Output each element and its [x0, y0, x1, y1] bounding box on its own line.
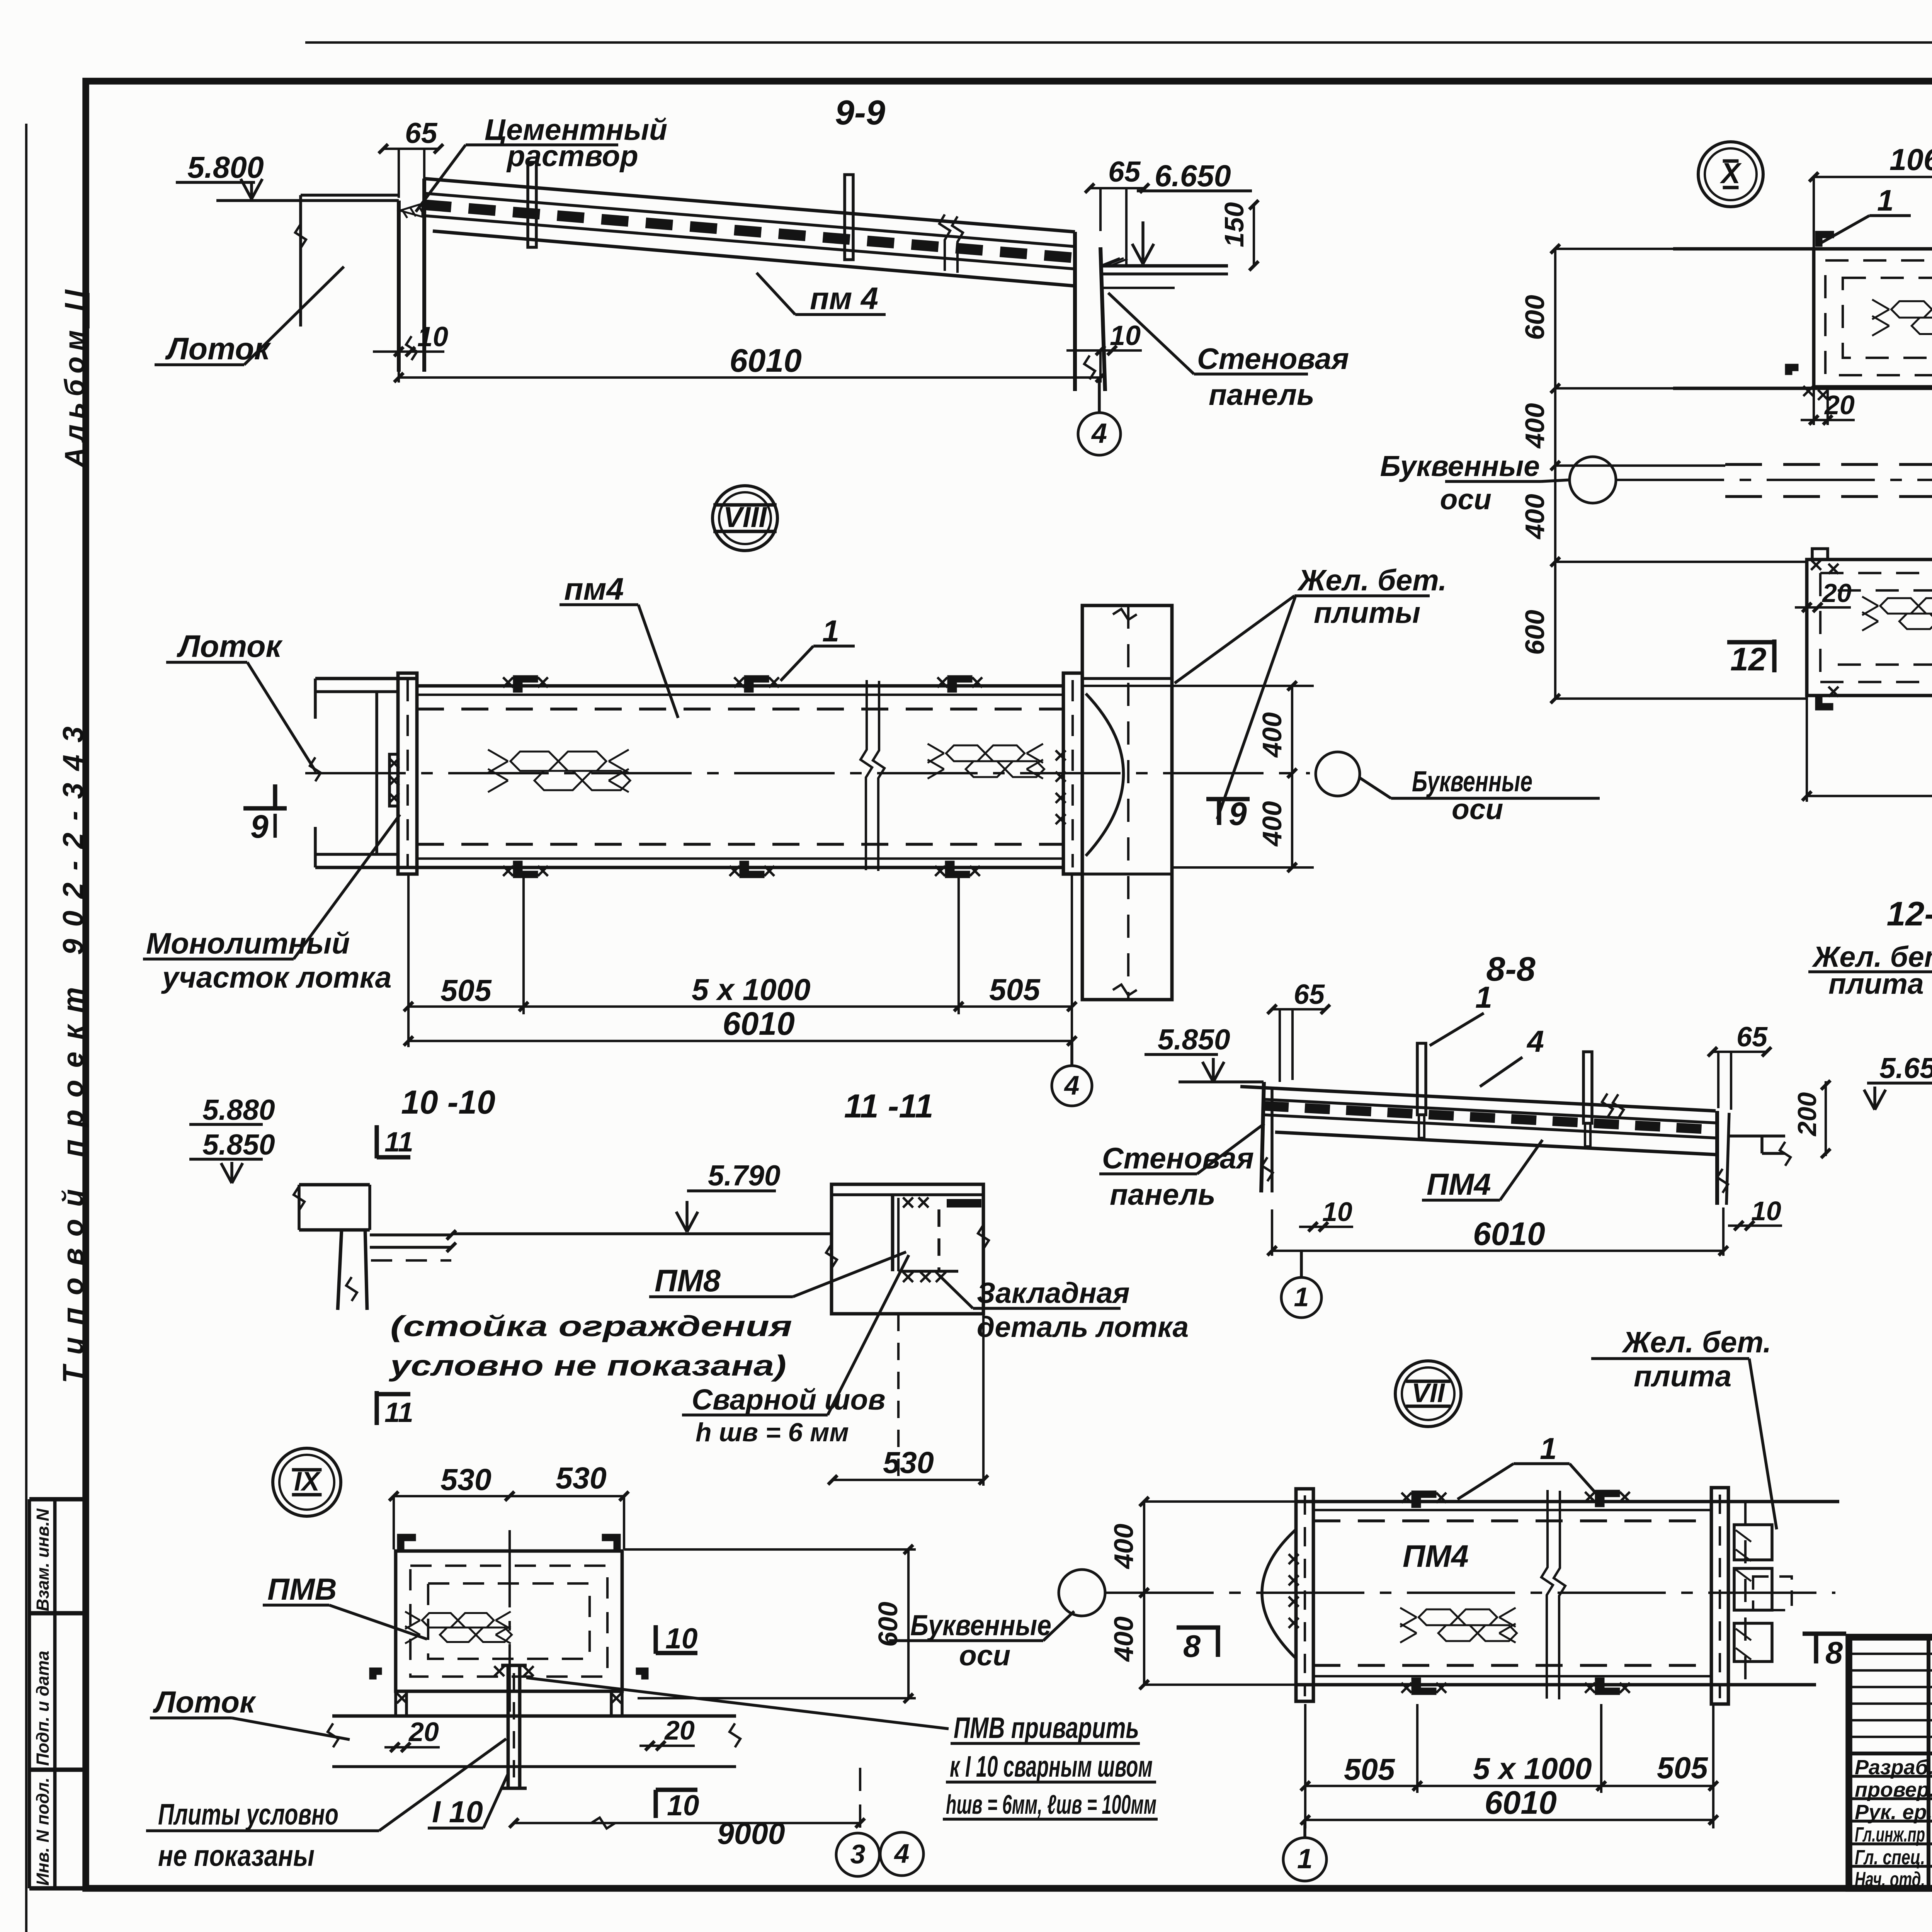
svg-text:пм4: пм4: [564, 572, 624, 607]
view IX dimension 20 right: [639, 1715, 695, 1750]
view X label 1: [1821, 184, 1911, 243]
svg-text:Лоток: Лоток: [177, 629, 283, 664]
svg-text:530: 530: [883, 1445, 934, 1480]
svg-text:1: 1: [1297, 1844, 1313, 1874]
title block signature labels: [1855, 1756, 1932, 1891]
section 9-9 dimension 10 right: [1066, 320, 1142, 355]
svg-text:не показаны: не показаны: [158, 1839, 315, 1872]
view IX note ПМВ приварить к I10: [526, 1678, 1158, 1820]
svg-text:Жел. бет.: Жел. бет.: [1621, 1326, 1771, 1359]
view VIII dimension 505 5x1000 505: [404, 874, 1077, 1047]
view VII right side plates: [1734, 1502, 1792, 1685]
svg-text:505: 505: [1344, 1752, 1395, 1786]
section 11-11 title: [844, 1088, 933, 1125]
view X dimension 2060 470: [1802, 696, 1932, 802]
title block main frame: [1849, 1637, 1932, 1888]
view VII mesh symbol: [1400, 1608, 1517, 1643]
svg-text:1: 1: [1294, 1282, 1309, 1312]
section 8-8 elevation 5.850: [1145, 1023, 1230, 1082]
svg-text:ПМВ приварить: ПМВ приварить: [954, 1711, 1139, 1745]
view VII dimension 6010: [1301, 1784, 1718, 1825]
section 8-8 dimension 10 left: [1299, 1197, 1353, 1231]
svg-text:400: 400: [1109, 1524, 1139, 1570]
svg-text:9000: 9000: [717, 1816, 785, 1850]
section 8-8 axis circle 1: [1281, 1251, 1321, 1318]
section 8-8 right ledge: [1729, 1136, 1791, 1166]
view VII marker circle: [1395, 1361, 1461, 1427]
view IX I10 beam: [494, 1665, 534, 1788]
svg-text:Рук. ер.: Рук. ер.: [1855, 1801, 1932, 1824]
section 8-8 title: [1486, 950, 1535, 988]
svg-text:10: 10: [665, 1622, 697, 1655]
view X dimension 20 at ПМ9 left: [1795, 578, 1852, 612]
view X section mark 12 at ПМ9: [1727, 639, 1774, 677]
view VII section mark 8 right: [1803, 1634, 1846, 1670]
svg-text:деталь лотка: деталь лотка: [977, 1311, 1189, 1343]
view VII right end plate: [1711, 1488, 1728, 1704]
view IX dimension 600: [624, 1545, 916, 1703]
view VII axis circle 1: [1283, 1820, 1327, 1881]
view VII axis line and letter axes circle: [889, 1570, 1835, 1672]
view IX plate ПМВ: [396, 1530, 622, 1712]
svg-text:10: 10: [417, 321, 448, 352]
view VII break mark middle: [1541, 1490, 1565, 1699]
section 11-11 elevation 5.790: [676, 1159, 781, 1232]
section 8-8 left wall: [1261, 1082, 1273, 1192]
svg-text:Гл.инж.пр: Гл.инж.пр: [1855, 1823, 1925, 1846]
view VIII label ПМ4: [560, 572, 678, 718]
view VII left end plate: [1289, 1489, 1313, 1701]
svg-text:ПМ8: ПМ8: [655, 1264, 721, 1298]
svg-text:400: 400: [1257, 712, 1287, 758]
svg-text:6010: 6010: [723, 1005, 795, 1042]
section 9-9 dimension 65 right: [1085, 155, 1149, 265]
view X letter axes circle and centre line: [1380, 450, 1932, 515]
svg-text:Жел. бет.: Жел. бет.: [1297, 564, 1447, 597]
view VII label 1 with leaders: [1458, 1431, 1601, 1499]
view VII curved tie: [1262, 1530, 1295, 1658]
svg-text:505: 505: [440, 973, 492, 1007]
view X dimension 20 left: [1801, 388, 1855, 425]
svg-text:150: 150: [1219, 202, 1249, 247]
view VIII label 1: [781, 614, 855, 681]
svg-text:Закладная: Закладная: [977, 1277, 1130, 1309]
title block small rows: [1849, 1654, 1932, 1753]
svg-text:ПМ4: ПМ4: [1403, 1539, 1469, 1574]
section 11-11 label Сварной шов: [682, 1255, 909, 1447]
left margin vertical text Типовой проект 902-2-343: [57, 726, 89, 1383]
section 12-12 label Жел.бет. плита: [1808, 940, 1932, 1000]
section 9-9 sloped panel ПМ4: [423, 179, 1078, 286]
svg-text:65: 65: [405, 117, 438, 149]
section 11-11 dimension 530: [828, 1314, 988, 1486]
view IX plate corner brackets: [370, 1535, 648, 1703]
svg-text:10: 10: [667, 1789, 699, 1821]
svg-text:6010: 6010: [1473, 1216, 1545, 1252]
title block signature rows: [1849, 1776, 1932, 1866]
section 8-8 label Стеновая панель: [1099, 1124, 1264, 1211]
view VIII rounding curve at right plate: [1086, 694, 1124, 856]
section 8-8 dimension 65 left: [1267, 979, 1330, 1082]
svg-text:400: 400: [1520, 403, 1550, 449]
section 9-9 dimension 6010: [394, 342, 1105, 383]
section 9-9 dimension 65 left: [379, 117, 443, 198]
svg-text:5.790: 5.790: [708, 1159, 781, 1192]
svg-text:1: 1: [822, 614, 839, 648]
view IX section mark 10 lower: [656, 1789, 699, 1821]
svg-text:65: 65: [1294, 979, 1325, 1010]
svg-text:Взам. инв.N: Взам. инв.N: [33, 1508, 53, 1611]
section 9-9 label ПМ4: [757, 273, 886, 316]
view X left dimension chain 600 400 400 600: [1520, 244, 1807, 703]
svg-text:20: 20: [1821, 578, 1852, 608]
section 9-9 left slab: [216, 195, 399, 327]
svg-text:505: 505: [1657, 1750, 1708, 1785]
svg-text:пм 4: пм 4: [810, 281, 878, 316]
svg-text:20: 20: [664, 1715, 695, 1745]
svg-text:4: 4: [1091, 418, 1107, 449]
svg-text:65: 65: [1108, 155, 1141, 188]
view IX mesh symbol: [405, 1612, 512, 1644]
svg-text:плита: плита: [1634, 1360, 1731, 1393]
section 8-8 railing post 2: [1583, 1052, 1592, 1146]
section 9-9 break marks: [939, 214, 963, 273]
svg-text:3: 3: [850, 1839, 866, 1869]
view IX label Лоток: [150, 1685, 350, 1740]
section 11-11 label Закладная деталь лотка: [939, 1275, 1189, 1343]
section 8-8 dimension 200: [1793, 1080, 1830, 1158]
section 10-10 elevation 5.880: [189, 1094, 275, 1126]
svg-text:12-12: 12-12: [1886, 895, 1932, 933]
view VIII label Лоток: [166, 629, 316, 772]
view IX dimension 9000: [509, 1768, 865, 1850]
view X wall bottom edge: [1673, 387, 1932, 390]
view IX dimension 20 left: [384, 1717, 440, 1752]
view VIII mesh symbol right: [928, 744, 1044, 779]
view VII top corner brackets: [1401, 1491, 1630, 1507]
left margin vertical text Альбом II: [60, 289, 90, 468]
view VIII centre axis line: [305, 772, 1310, 774]
svg-text:11: 11: [384, 1397, 413, 1428]
svg-text:10: 10: [1751, 1196, 1781, 1226]
view VIII label Жел.бет. плиты: [1175, 564, 1447, 819]
view X top dimension 1060 1470: [1809, 142, 1932, 247]
section 9-9 label Стеновая панель: [1108, 293, 1349, 412]
section 9-9 right wall: [1075, 232, 1105, 391]
view VII label Жел.бет. плита: [1591, 1326, 1777, 1529]
svg-text:9: 9: [250, 808, 269, 845]
svg-text:600: 600: [1520, 295, 1550, 340]
svg-text:1060: 1060: [1889, 142, 1932, 177]
section 9-9 dimension 150: [1219, 200, 1259, 270]
svg-text:панель: панель: [1209, 378, 1315, 412]
svg-text:505: 505: [989, 972, 1041, 1007]
view VII section mark 8 left: [1177, 1628, 1220, 1664]
section 8-8 sloped panel: [1179, 1082, 1718, 1155]
svg-text:Подп. и дата: Подп. и дата: [33, 1651, 53, 1766]
section 9-9 axis circle 4: [1078, 378, 1121, 455]
svg-text:участок лотка: участок лотка: [161, 961, 391, 994]
svg-text:Буквенные: Буквенные: [1380, 450, 1540, 482]
svg-text:530: 530: [440, 1462, 492, 1497]
svg-text:6010: 6010: [1485, 1784, 1557, 1821]
section 11-11 label ПМ8: [649, 1252, 906, 1298]
section 8-8 right wall: [1717, 1111, 1729, 1205]
section 10-10 cut mark 11 bottom: [377, 1391, 413, 1428]
view X plate ПМ8 corner brackets: [1786, 232, 1932, 400]
left margin stamp table: [29, 1499, 86, 1888]
section 11-11 note стойка ограждения: [388, 1310, 792, 1382]
view X wall top edge: [1673, 247, 1932, 251]
view VIII dimension 400 400 right: [1082, 681, 1314, 872]
view VIII axis circle 4: [1052, 1041, 1092, 1106]
section 8-8 label 4: [1480, 1024, 1544, 1087]
svg-text:11 -11: 11 -11: [844, 1088, 933, 1125]
svg-text:провер.: провер.: [1855, 1778, 1932, 1801]
view X marker circle: [1698, 142, 1763, 207]
svg-text:6010: 6010: [730, 342, 802, 379]
svg-text:условно не показана): условно не показана): [388, 1349, 786, 1382]
svg-text:Стеновая: Стеновая: [1197, 342, 1349, 376]
section 9-9 elevation mark 5.800: [176, 150, 264, 199]
svg-text:1: 1: [1877, 184, 1894, 217]
section 8-8 railing post 1: [1417, 1043, 1426, 1138]
view X ПМ9 bottom brackets: [1816, 687, 1932, 709]
svg-text:4: 4: [1526, 1024, 1544, 1058]
svg-text:8-8: 8-8: [1486, 950, 1535, 988]
section 8-8 break mark: [1602, 1094, 1624, 1118]
section 10-10 elevation 5.850: [189, 1128, 275, 1183]
svg-text:оси: оси: [959, 1639, 1010, 1672]
svg-text:530: 530: [556, 1461, 607, 1495]
section 8-8 dimension 10 right: [1728, 1196, 1782, 1230]
view VIII letter axes circle: [1316, 752, 1600, 825]
svg-text:5 х 1000: 5 х 1000: [692, 972, 811, 1007]
section 8-8 label ПМ4: [1422, 1140, 1543, 1201]
section 9-9 title: [835, 94, 885, 132]
svg-text:12: 12: [1730, 641, 1766, 677]
view VIII trough lotok box: [310, 679, 417, 867]
svg-text:4: 4: [1064, 1070, 1080, 1100]
section 9-9 elevation 6.650: [1132, 158, 1252, 264]
svg-text:Лоток: Лоток: [153, 1685, 257, 1719]
section 10-10 floor lines: [370, 1230, 456, 1260]
svg-text:оси: оси: [1440, 483, 1492, 515]
view VIII mesh symbol left: [488, 750, 630, 792]
svg-text:ПМ4: ПМ4: [1427, 1167, 1491, 1201]
svg-text:4: 4: [894, 1838, 910, 1868]
section 8-8 label 1: [1430, 980, 1492, 1046]
section 10-10 wall top slab: [294, 1185, 370, 1230]
view VIII section mark 9 left: [243, 784, 287, 845]
svg-text:400: 400: [1520, 494, 1550, 540]
section 12-12 title: [1886, 895, 1932, 933]
svg-text:9: 9: [1229, 796, 1247, 832]
svg-text:20: 20: [408, 1717, 439, 1747]
section 11-11 floor line: [451, 1232, 832, 1235]
view X hidden trough dashed lines: [1725, 464, 1932, 497]
view VII trough body: [1296, 1502, 1839, 1685]
section 9-9 label Цементный раствор: [416, 113, 667, 212]
svg-text:панель: панель: [1110, 1178, 1216, 1211]
svg-text:(стойка ограждения: (стойка ограждения: [390, 1310, 792, 1342]
view VIII marker circle: [713, 486, 777, 551]
svg-text:5 х 1000: 5 х 1000: [1473, 1751, 1592, 1786]
section 11-11 detail box: [826, 1184, 989, 1314]
svg-text:11: 11: [384, 1127, 413, 1158]
view IX note Плиты условно не показаны: [146, 1739, 506, 1872]
svg-text:Лоток: Лоток: [165, 332, 272, 366]
view VIII left end plate: [389, 673, 417, 874]
view X ПМ9 top brackets: [1811, 547, 1932, 574]
svg-text:ПМВ: ПМВ: [267, 1572, 337, 1606]
view VII bottom corner brackets: [1401, 1679, 1630, 1694]
section 10-10 cut mark 11 top: [377, 1125, 413, 1158]
svg-text:10 -10: 10 -10: [401, 1084, 495, 1121]
section 9-9 left wall of trough: [399, 179, 424, 372]
svg-text:5.650: 5.650: [1879, 1052, 1932, 1084]
svg-text:5.850: 5.850: [202, 1128, 275, 1161]
view VII label ПМ4: [1403, 1539, 1469, 1574]
svg-text:9-9: 9-9: [835, 94, 885, 132]
view VIII top corner brackets: [503, 676, 982, 692]
view IX label I10: [428, 1774, 508, 1829]
view IX axis circles 3 and 4: [836, 1832, 923, 1876]
svg-text:400: 400: [1109, 1616, 1139, 1662]
view VIII bottom corner brackets: [503, 862, 980, 877]
view X plate ПМ9 mesh: [1862, 597, 1932, 631]
svg-text:600: 600: [1520, 610, 1550, 655]
svg-text:Нач. отд.: Нач. отд.: [1855, 1868, 1925, 1891]
section 9-9 railing post 1: [528, 162, 536, 247]
svg-text:Разраб.: Разраб.: [1855, 1756, 1932, 1779]
svg-text:1: 1: [1475, 980, 1492, 1014]
svg-text:5.880: 5.880: [202, 1094, 275, 1126]
svg-text:1: 1: [1540, 1431, 1557, 1466]
view VIII break mark middle: [861, 680, 884, 871]
view IX dimension 530 530: [389, 1461, 629, 1549]
svg-text:Гл. спец.: Гл. спец.: [1855, 1846, 1925, 1869]
section 10-10 wall below: [338, 1230, 367, 1310]
view VIII transverse plates band: [1082, 605, 1172, 1000]
svg-text:Плиты условно: Плиты условно: [158, 1798, 338, 1831]
section 8-8 dimension 6010: [1267, 1207, 1728, 1256]
svg-text:Монолитный: Монолитный: [146, 927, 350, 960]
view IX marker circle: [273, 1448, 341, 1516]
section 8-8 dimension 65 right: [1708, 1022, 1771, 1110]
view VII dimension 505 5x1000 505: [1301, 1704, 1718, 1828]
view VIII trough body ПМ4: [417, 686, 1063, 867]
svg-text:Инв. N подл.: Инв. N подл.: [33, 1777, 53, 1886]
view VIII label Монолитный участок лотка: [143, 815, 400, 994]
view IX label ПМВ: [263, 1572, 427, 1639]
svg-text:Буквенные: Буквенные: [910, 1609, 1051, 1641]
svg-text:плиты: плиты: [1314, 596, 1420, 629]
svg-text:8: 8: [1825, 1636, 1843, 1670]
view X plate ПМ8: [1814, 249, 1932, 387]
view VIII dimension 6010: [404, 1005, 1077, 1046]
svg-text:I 10: I 10: [432, 1794, 483, 1829]
view X mesh symbol: [1872, 299, 1932, 336]
svg-text:оси: оси: [1452, 793, 1503, 825]
section 9-9 label Лоток: [155, 267, 344, 366]
svg-text:400: 400: [1257, 801, 1287, 847]
section 9-9 dimension 10 left: [373, 321, 448, 356]
svg-text:hшв = 6мм, ℓшв = 100мм: hшв = 6мм, ℓшв = 100мм: [946, 1789, 1156, 1820]
svg-text:5.850: 5.850: [1158, 1023, 1230, 1056]
view VIII right end plate: [1056, 673, 1082, 874]
section 9-9 railing post 2: [845, 175, 853, 260]
svg-text:6.650: 6.650: [1155, 158, 1231, 193]
svg-text:200: 200: [1793, 1092, 1822, 1137]
view X plate ПМ9 assembly: [1807, 560, 1932, 696]
svg-text:h шв = 6 мм: h шв = 6 мм: [696, 1418, 849, 1447]
section 9-9 right slab: [1100, 258, 1228, 288]
section 8-8 elevation 5.650: [1864, 1052, 1932, 1110]
view VIII section mark 9 right: [1206, 796, 1250, 832]
view IX slab band: [328, 1691, 740, 1767]
svg-text:8: 8: [1183, 1629, 1201, 1664]
svg-text:65: 65: [1736, 1022, 1768, 1053]
view VII dimension 400 400 left: [1109, 1497, 1296, 1689]
svg-text:5.800: 5.800: [187, 150, 264, 184]
section 10-10 title: [401, 1084, 495, 1121]
view IX section mark 10 upper: [656, 1622, 697, 1655]
svg-text:Сварной шов: Сварной шов: [692, 1383, 886, 1416]
svg-text:к I 10 сварным швом: к I 10 сварным швом: [950, 1750, 1153, 1783]
